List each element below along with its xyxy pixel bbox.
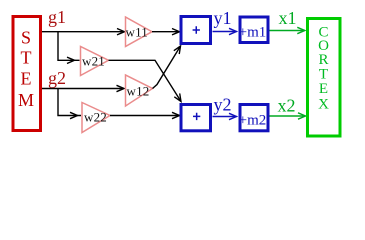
amplifier w22 [82, 103, 110, 133]
wire branch g2 down to w22 [58, 89, 81, 116]
svg-text:y1: y1 [214, 8, 232, 28]
svg-text:E: E [21, 68, 32, 88]
wire y1: summer1 to +m1 [213, 31, 237, 33]
box +m1 [239, 17, 268, 43]
svg-text:w12: w12 [127, 83, 150, 98]
svg-text:+m1: +m1 [239, 24, 267, 40]
amplifier w21 [81, 47, 109, 76]
svg-text:E: E [319, 81, 328, 97]
svg-text:w11: w11 [126, 25, 149, 40]
svg-text:x1: x1 [279, 8, 297, 28]
svg-text:w22: w22 [84, 109, 107, 124]
summer box 1 (+) [181, 17, 211, 44]
svg-text:g2: g2 [48, 68, 66, 88]
box +m2 [239, 105, 268, 131]
svg-text:g1: g1 [48, 7, 66, 27]
svg-text:R: R [318, 52, 328, 68]
CORTEX box [308, 19, 341, 137]
wire w22 to summer 2 [110, 115, 180, 117]
svg-text:y2: y2 [214, 95, 232, 115]
wire w11 to summer 1 [152, 31, 180, 33]
wire y2: summer2 to +m2 [213, 116, 237, 118]
amplifier w12 [126, 75, 153, 106]
wire x2: +m2 to CORTEX [270, 115, 306, 117]
amplifier w11 [126, 17, 153, 47]
svg-text:X: X [318, 97, 329, 113]
svg-text:+m2: +m2 [239, 112, 267, 128]
wire branch g1 down to w21 [58, 32, 80, 61]
wire g2 from STEM to w12 [42, 88, 124, 90]
wire w21 down-cross to summer 2 [109, 60, 182, 101]
summer box 2 (+) [181, 105, 211, 131]
svg-text:S: S [21, 28, 31, 48]
svg-text:w21: w21 [82, 53, 105, 68]
STEM box [13, 17, 41, 131]
svg-text:M: M [18, 90, 34, 110]
wire x1: +m1 to CORTEX [270, 30, 305, 32]
svg-text:T: T [21, 48, 32, 68]
wire g1 from STEM to w11 [42, 31, 125, 33]
svg-text:x2: x2 [278, 96, 296, 116]
wire w12 up-cross to summer 1 [153, 46, 181, 89]
